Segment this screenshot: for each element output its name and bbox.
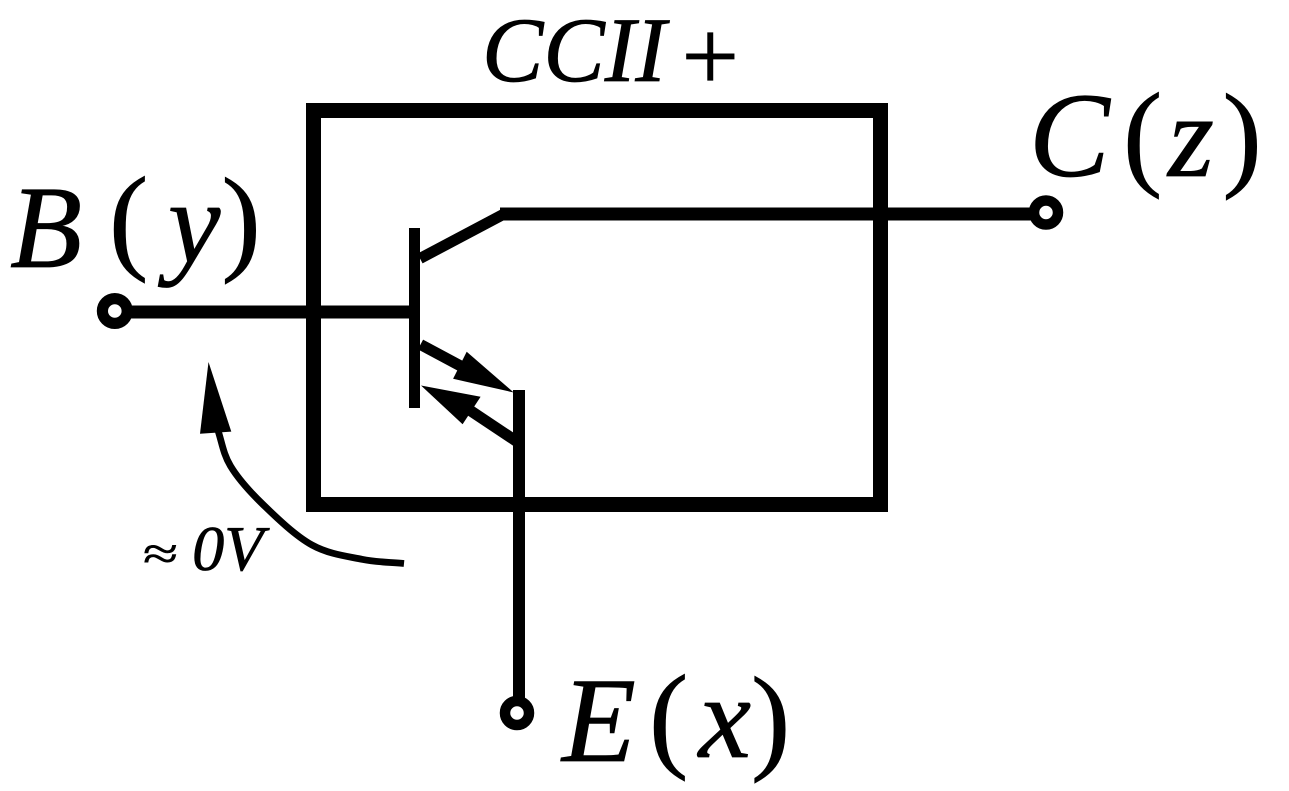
svg-text:B: B xyxy=(10,162,82,293)
CCII+ block box xyxy=(314,111,881,505)
svg-text:(: ( xyxy=(109,153,148,284)
svg-text:C: C xyxy=(1029,69,1111,203)
svg-text:y: y xyxy=(158,157,221,288)
terminal E(x) xyxy=(505,701,529,725)
svg-text:E: E xyxy=(560,654,636,788)
svg-text:≈: ≈ xyxy=(143,528,178,579)
Vbe arc arrow xyxy=(218,429,405,564)
transistor Q1 emitter reverse arrow shaft xyxy=(465,407,516,441)
transistor Q1 emitter lead outward arrow shaft xyxy=(421,345,471,372)
svg-text:z: z xyxy=(1166,71,1214,202)
terminal B(y) xyxy=(102,299,127,324)
wire base B(y) xyxy=(128,306,415,319)
svg-text:0V: 0V xyxy=(192,513,270,584)
svg-text:): ) xyxy=(1223,70,1262,201)
svg-text:x: x xyxy=(697,652,751,783)
wire emitter to E(x) xyxy=(513,390,525,698)
label E (x) xyxy=(560,651,790,788)
label C (z) xyxy=(1029,69,1262,203)
transistor Q1 collector lead xyxy=(420,214,504,259)
svg-text:(: ( xyxy=(649,651,688,782)
label B (y) xyxy=(10,153,261,293)
wire collector to C(z) xyxy=(500,208,1031,221)
svg-text:+: + xyxy=(682,1,740,114)
label approx 0V xyxy=(143,513,270,584)
title CCII + xyxy=(482,0,739,114)
terminal C(z) xyxy=(1034,201,1058,225)
svg-text:): ) xyxy=(751,653,790,784)
svg-text:): ) xyxy=(222,154,261,285)
transistor Q1 emitter reverse arrowhead xyxy=(421,386,481,425)
transistor Q1 base bar xyxy=(409,228,420,408)
Vbe arc arrowhead xyxy=(200,362,231,434)
svg-text:CCII: CCII xyxy=(482,0,670,101)
svg-text:(: ( xyxy=(1123,69,1162,200)
transistor Q1 emitter lead outward arrowhead xyxy=(453,352,514,393)
